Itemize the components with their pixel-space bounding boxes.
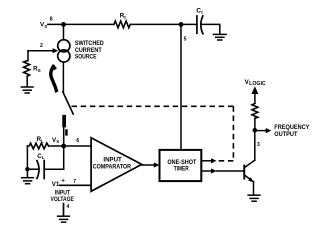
svg-text:LOGIC: LOGIC [249, 81, 266, 87]
svg-text:6: 6 [76, 138, 79, 144]
dashed control line (one-shot to switch) [72, 106, 234, 161]
svg-text:2: 2 [40, 43, 43, 49]
svg-text:VOLTAGE: VOLTAGE [51, 196, 74, 203]
svg-text:SOURCE: SOURCE [75, 54, 97, 61]
ground (left rail) [22, 178, 34, 184]
wire Ct to ground [201, 24, 220, 33]
switch throw arrow (ink mark) [62, 115, 67, 136]
RL label [37, 136, 45, 143]
wire V1 to comparator [60, 184, 91, 186]
wire Rt to node 5 [130, 23, 197, 25]
svg-text:L: L [41, 138, 44, 143]
capacitor Ct [197, 16, 203, 34]
switched current source U1 [58, 40, 70, 62]
resistor (VLOGIC pull-up) [252, 103, 258, 118]
one-shot output 2 (to transistor base) [201, 170, 211, 172]
Ct label [196, 8, 203, 15]
left rail wire [26, 146, 28, 169]
svg-text:OUTPUT: OUTPUT [274, 131, 297, 138]
svg-text:S: S [38, 68, 41, 73]
wire left rail to ground [26, 169, 28, 177]
wire CL to VX rail [44, 168, 64, 170]
op-amp input comparator [91, 138, 142, 192]
node 3 junction dot [253, 128, 258, 133]
node VX label [52, 137, 60, 144]
svg-text:7: 7 [73, 179, 76, 185]
svg-text:8: 8 [50, 17, 53, 23]
wire to transistor base [217, 170, 244, 172]
wire to CL [27, 168, 39, 170]
frequency output label [274, 124, 310, 138]
svg-text:S: S [44, 24, 47, 29]
resistor RL [27, 143, 48, 149]
wire switch to node VX [63, 117, 65, 146]
svg-text:3: 3 [257, 142, 260, 148]
comparator label [93, 156, 132, 170]
node 5 junction dot [179, 22, 184, 27]
svg-text:L: L [42, 155, 45, 160]
wire RS to ground [26, 76, 28, 86]
svg-text:V1: V1 [52, 181, 60, 188]
wire VX down to CL rail [63, 146, 65, 169]
wire current source to switch [62, 62, 64, 92]
wire resistor to node 3 [254, 118, 256, 130]
svg-text:+: + [61, 178, 65, 185]
Rt label [120, 13, 127, 20]
CL label [37, 153, 45, 160]
capacitor CL [37, 161, 44, 179]
node VX junction dot [61, 144, 66, 149]
resistor RS [24, 61, 30, 77]
transistor Q1 [243, 130, 255, 194]
wire VS node to current source [63, 24, 65, 39]
one-shot timer U2 [160, 150, 202, 181]
ground (V1) [58, 216, 70, 222]
node junction dot at VS rail [61, 22, 66, 27]
current arrow annotation (ink blob) [51, 65, 57, 93]
ground (RS) [21, 87, 33, 93]
svg-text:5: 5 [184, 36, 187, 42]
comparator output wire with arrow [142, 164, 155, 166]
RS label [33, 66, 41, 73]
node VS label [40, 22, 47, 29]
one-shot timer label [167, 159, 196, 172]
frequency output arrow [257, 130, 267, 132]
one-shot output 1 (to dashed line) [201, 160, 211, 162]
ground (Ct) [213, 34, 226, 40]
svg-text:4: 4 [67, 204, 70, 210]
wire pin2 with arrow into current source [28, 50, 53, 52]
left rail junction dot [25, 167, 29, 171]
wire down to RS [27, 51, 29, 61]
ground (emitter) [248, 195, 260, 201]
wire VS to Rt [48, 23, 114, 25]
wire VX to comparator [64, 145, 91, 147]
wire V1 to ground [63, 204, 65, 216]
svg-text:TIMER: TIMER [174, 165, 189, 172]
current source label [75, 40, 104, 61]
wire node 5 to one-shot top [180, 24, 182, 149]
VLOGIC arrow up [251, 86, 258, 94]
VLOGIC label [245, 79, 266, 87]
svg-text:COMPARATOR: COMPARATOR [93, 163, 132, 170]
wire RL to VX [49, 145, 64, 147]
svg-text:INPUT: INPUT [103, 156, 122, 163]
switch arm S1 [63, 92, 73, 114]
INPUT VOLTAGE label [51, 189, 74, 203]
resistor Rt [114, 21, 130, 28]
